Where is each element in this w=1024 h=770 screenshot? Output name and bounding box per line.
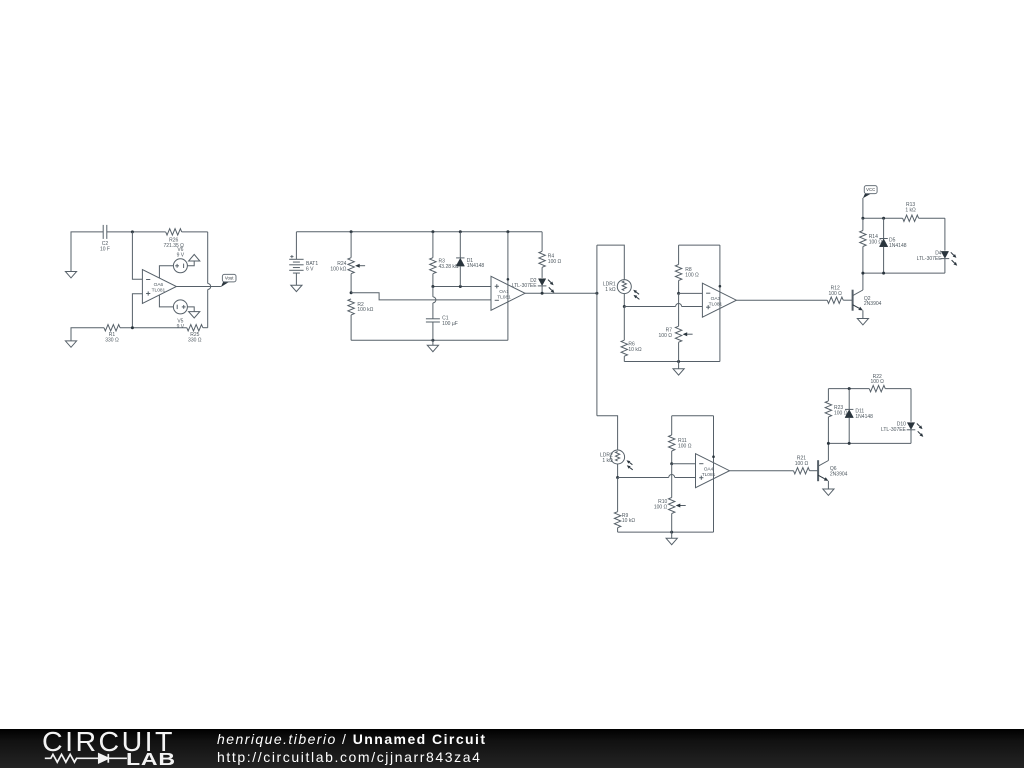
resistor R8 100 [675, 245, 699, 293]
resistor R23 100 [825, 401, 848, 417]
wire feedback right vertical with hop [208, 232, 211, 328]
wire to OA1 inverting input [351, 293, 491, 300]
resistor R21 100 [794, 456, 819, 474]
wire V6 to VCC arrow [187, 261, 194, 266]
potentiometer R24 100 k [330, 232, 365, 293]
diode D1 1N4148 [456, 232, 484, 287]
node R11 junction / wire to OA4 inverting input [670, 462, 695, 465]
capacitor C2 [100, 225, 110, 253]
wire top rail left circuit [71, 232, 208, 272]
wire main vertical distribution [596, 245, 598, 416]
node VCC flag [863, 186, 877, 219]
wire jog to LDR1 [597, 245, 624, 280]
node Vout flag [221, 274, 236, 287]
potentiometer R10 100 [654, 498, 686, 533]
photoresistor LDR2 1 k [600, 450, 633, 470]
wire op-amp V- pin [159, 295, 173, 307]
ground [666, 532, 677, 545]
ground [857, 319, 868, 325]
resistor R11 100 [669, 416, 692, 464]
ground [427, 340, 438, 351]
wire top rail middle [296, 231, 542, 233]
ground [65, 272, 76, 278]
resistor R26 [163, 229, 184, 249]
ground [65, 341, 76, 347]
wire OA1 power rails vertical [507, 232, 510, 340]
resistor R12 100 [827, 285, 852, 303]
ground [673, 362, 684, 376]
node R8 junction / wire to OA3 inverting input [677, 292, 702, 295]
resistor R1 [104, 325, 120, 344]
footer title text [217, 731, 487, 747]
wire bottom rail Q2 box [861, 272, 945, 275]
resistor R2 100 k [348, 299, 374, 340]
photoresistor LDR1 1 k [603, 280, 639, 300]
op-amp OA6 [142, 270, 176, 304]
wire R8 junction down to R7 [678, 293, 680, 326]
resistor R9 10 k [614, 478, 635, 533]
wire bottom rail OA4 [618, 531, 714, 534]
voltage source V6 9 V [173, 247, 187, 273]
node junction C2/feedback [131, 230, 134, 233]
capacitor C1 100 uF [426, 316, 458, 341]
wire Q2 collector [862, 273, 864, 290]
ground [291, 285, 302, 291]
wire top rail Q6 box [828, 387, 911, 443]
node output junctions [541, 292, 599, 295]
wire to OA3 non-inverting input with hop [624, 304, 702, 307]
wire R3 to C1 with hop [433, 287, 436, 319]
node junctions R3/D1 [431, 285, 461, 288]
wire LDR2 lower lead [616, 464, 619, 479]
wire bottom rail Q6 box [827, 442, 911, 445]
transistor Q2 2N3904 [853, 290, 882, 311]
wire R11 junction down to R10 [671, 464, 673, 498]
wire bottom rail OA3 [624, 360, 720, 363]
resistor R25 [187, 325, 203, 344]
battery BAT1 6 V [289, 232, 318, 285]
wire OA1 output [525, 292, 597, 294]
resistor R14 100 [860, 218, 883, 273]
LED D2 LTL-307EE [512, 278, 555, 293]
wire top rail OA4 [672, 415, 714, 417]
wire bottom rail middle [351, 339, 508, 341]
wire op-amp output [176, 286, 221, 288]
wire Q6 emitter [827, 481, 829, 489]
node junction R1/R25 [131, 326, 134, 329]
diode D5 1N4148 [879, 218, 906, 273]
logo resistor-diode glyph [45, 754, 127, 763]
wire op-amp V+ pin [159, 266, 173, 278]
footer url text [217, 749, 482, 765]
resistor R3 43.28 k [430, 232, 459, 287]
wire top rail Q2 box [861, 217, 945, 220]
resistor R13 1 k [903, 202, 919, 221]
wire V5 to ground [187, 307, 194, 312]
op-amp OA1 [491, 276, 525, 310]
potentiometer R7 100 [659, 326, 693, 361]
CircuitLab logo [42, 726, 175, 758]
wire Q6 collector [827, 443, 829, 460]
voltage source V5 9 V [173, 300, 187, 330]
LED D10 LTL-307EE [881, 389, 923, 444]
node bottom rail junction [431, 339, 434, 342]
node top rail junctions [350, 230, 510, 233]
node R24/R2 junction [350, 291, 353, 294]
wire OA4 power rails vertical [712, 416, 715, 532]
wire jog to LDR2 [597, 416, 618, 450]
footer bar [0, 729, 1024, 768]
power flag (up arrow) [189, 254, 200, 261]
wire OA4 output [730, 470, 794, 472]
wire top rail OA3 [679, 244, 720, 246]
resistor R22 100 [869, 374, 885, 392]
wire to OA1 non-inverting input [433, 286, 491, 288]
op-amp OA3 [702, 283, 736, 317]
wire to non-inverting input [132, 294, 142, 328]
wire OA3 power rails vertical [719, 245, 722, 361]
ground [823, 489, 834, 495]
diode D11 1N4148 [845, 389, 873, 444]
wire LDR1 lower lead [623, 294, 626, 308]
op-amp OA4 [696, 454, 730, 488]
wire Q2 emitter [862, 310, 864, 318]
wire OA3 output [736, 299, 827, 301]
wire to inverting input [132, 232, 142, 279]
resistor R6 10 k [621, 307, 642, 362]
wire bottom rail left circuit [71, 328, 208, 341]
ground [189, 312, 200, 318]
transistor Q6 2N3904 [818, 460, 848, 481]
wire to OA4 non-inverting input with hop [618, 475, 696, 478]
LED D4 LTL-307EE [917, 218, 958, 273]
resistor R4 100 [539, 232, 562, 278]
